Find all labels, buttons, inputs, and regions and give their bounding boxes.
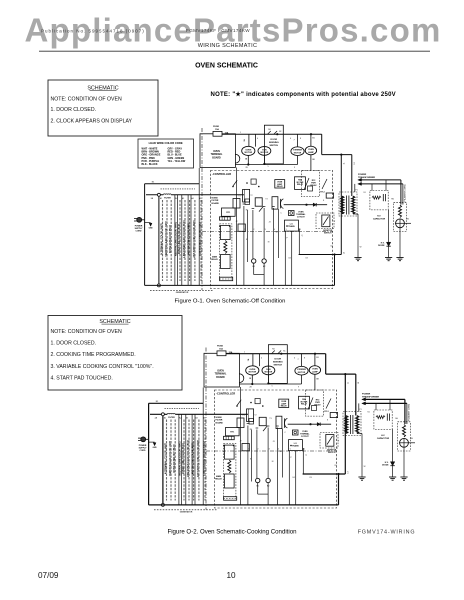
noise filter terminal verticals F2: [178, 414, 180, 505]
svg-text:RELAY: RELAY: [277, 185, 284, 188]
svg-text:STIRRER: STIRRER: [297, 369, 306, 371]
svg-text:BOARD: BOARD: [212, 156, 221, 159]
bus under motors F1: [235, 164, 297, 166]
svg-text:FUSE: FUSE: [217, 346, 223, 348]
svg-text:-CONTROLLER: -CONTROLLER: [212, 172, 231, 176]
svg-text:2. COOKING TIME PROGRAMMED.: 2. COOKING TIME PROGRAMMED.: [51, 352, 136, 358]
svg-text:FILTER: FILTER: [168, 417, 175, 419]
relay coil box K3 F1: [272, 197, 278, 209]
neutral vertical with junctions F2: [162, 414, 164, 505]
noise filter terminal verticals F1: [174, 195, 176, 286]
svg-text:FGMV174KF FGMV174KW: FGMV174KF FGMV174KW: [186, 28, 250, 33]
small component box F1: [245, 199, 250, 205]
svg-text:1: 1: [244, 229, 245, 231]
terminal strip F1: [220, 217, 231, 220]
oven motor M1 F1: [248, 134, 250, 146]
svg-text:ANT SW COM (COLOR: RED): ANT SW COM (COLOR: RED): [188, 223, 191, 255]
svg-text:CAPACITOR: CAPACITOR: [373, 217, 386, 220]
svg-text:FUSED LINE (COLOR: BLK): FUSED LINE (COLOR: BLK): [183, 443, 185, 473]
svg-text:WIRING SCHEMATIC: WIRING SCHEMATIC: [198, 43, 258, 49]
svg-text:B8: B8: [316, 379, 318, 381]
svg-text:4: 4: [257, 138, 258, 140]
fan motor M2 F1: [258, 147, 271, 156]
note box figure 1: [48, 80, 158, 136]
svg-text:B1: B1: [316, 357, 318, 359]
svg-text:A4: A4: [191, 197, 193, 200]
ground G3 F1: [396, 257, 403, 259]
svg-text:SWITCH: SWITCH: [273, 364, 282, 366]
svg-text:W: W: [360, 247, 362, 249]
main relay assembly F1: [220, 224, 232, 279]
relay K2 F2: [259, 417, 266, 425]
capacitor C1 F2: [284, 418, 286, 428]
oven lamp M4 F2: [314, 354, 316, 366]
svg-text:RELAY: RELAY: [301, 403, 308, 406]
terminal E1 F2: [256, 478, 260, 482]
controller drop wires F2: [240, 387, 242, 505]
switch contact S2 F1: [259, 206, 263, 211]
svg-text:4: 4: [278, 448, 279, 450]
transformer return wire F2: [303, 473, 346, 475]
low voltage transformer box F2: [289, 440, 303, 451]
svg-text:GENERATOR: GENERATOR: [176, 291, 189, 294]
svg-text:1. DOOR CLOSED.: 1. DOOR CLOSED.: [51, 107, 97, 113]
relay coil box K3 F2: [276, 416, 282, 428]
svg-text:J2: J2: [236, 221, 238, 223]
oven lamp M4 F1: [310, 134, 312, 146]
wire L1 rail F1: [145, 183, 200, 185]
door sensing switch box F1: [264, 125, 283, 164]
svg-text:FILAMENT (GRN): FILAMENT (GRN): [403, 184, 406, 201]
svg-text:MG: MG: [406, 219, 410, 221]
switch contact S3 F1: [322, 179, 327, 189]
controller dashed enclosure F1: [211, 171, 333, 289]
svg-text:T2: T2: [254, 415, 256, 417]
svg-text:T3: T3: [265, 199, 267, 201]
svg-text:OVEN SCHEMATIC: OVEN SCHEMATIC: [195, 63, 258, 70]
relay K1 F2: [247, 409, 254, 422]
magnetron dashed box F1: [394, 202, 407, 231]
svg-text:GND: GND: [149, 228, 154, 230]
wire N rail with line filter F2: [150, 413, 167, 415]
svg-text:LEAD WIRE COLOR CODE: LEAD WIRE COLOR CODE: [149, 141, 183, 145]
svg-text:B1: B1: [312, 138, 314, 140]
svg-text:RELAY: RELAY: [211, 258, 218, 261]
svg-text:Figure O-2. Oven Schematic-Coo: Figure O-2. Oven Schematic-Cooking Condi…: [167, 529, 296, 536]
svg-text:RELAY: RELAY: [215, 478, 222, 481]
stirrer motor M3 F2: [301, 354, 303, 367]
terminal board vertical F2: [202, 388, 204, 505]
terminal E2 F2: [266, 478, 270, 482]
secondary return to ground F2: [361, 434, 363, 478]
dashed interconnect F1: [161, 188, 196, 190]
choke coil filter F2: [167, 412, 175, 415]
svg-text:X3: X3: [309, 477, 311, 479]
wire label text texture F2: [166, 420, 168, 501]
power relay dashed box F1: [301, 171, 319, 197]
oven terminal board box F2: [204, 353, 239, 387]
wire stub marks F1: [243, 203, 246, 205]
neutral vertical with junctions F1: [158, 195, 160, 286]
svg-text:H.V.: H.V.: [377, 216, 381, 218]
svg-text:9: 9: [294, 167, 295, 169]
svg-text:A2: A2: [175, 197, 177, 200]
note box figure 2: [48, 316, 182, 391]
ground G2 F1: [385, 257, 392, 259]
power supply cord plug F2: [141, 437, 146, 442]
terminal board vertical F1: [198, 168, 200, 285]
svg-text:T1: T1: [238, 196, 240, 198]
svg-text:TRANS: TRANS: [288, 225, 295, 228]
svg-text:SENSING: SENSING: [273, 361, 283, 363]
capacitor C1 F1: [280, 199, 282, 209]
svg-text:POWER: POWER: [358, 174, 367, 176]
wire to monitor area F2: [288, 423, 331, 425]
svg-text:MAIN: MAIN: [212, 256, 218, 259]
svg-text:MOTOR: MOTOR: [244, 152, 252, 154]
svg-text:T2: T2: [250, 195, 252, 197]
secondary return to ground F1: [357, 214, 359, 258]
terminal E1 F1: [252, 259, 256, 263]
svg-text:CUTOUT: CUTOUT: [301, 436, 310, 438]
thermal cutout F2: [293, 430, 299, 435]
monitor switch dashed box F2: [320, 433, 338, 449]
svg-text:7: 7: [293, 140, 294, 142]
header rule: [39, 50, 430, 52]
svg-text:FUSE: FUSE: [213, 126, 219, 128]
svg-text:OVEN: OVEN: [312, 369, 318, 371]
stirrer motor M3 F1: [297, 134, 299, 147]
svg-text:R1: R1: [250, 429, 252, 431]
svg-text:R1: R1: [246, 210, 248, 212]
power supply cord plug F1: [137, 217, 142, 222]
HV diode D1 F2: [392, 429, 394, 461]
svg-text:OVEN: OVEN: [249, 369, 255, 371]
fan motor relay box F1: [295, 177, 306, 190]
svg-text:POWER: POWER: [362, 394, 371, 396]
door switch contacts F1: [268, 131, 271, 134]
svg-text:SWITCH: SWITCH: [269, 145, 278, 147]
svg-text:6: 6: [304, 448, 305, 450]
svg-text:SENSING: SENSING: [269, 142, 279, 144]
svg-text:DOOR: DOOR: [271, 139, 278, 141]
svg-text:H.V.: H.V.: [381, 435, 385, 437]
svg-text:J3: J3: [269, 222, 271, 224]
svg-text:A1: A1: [160, 197, 162, 200]
svg-text:8: 8: [300, 138, 301, 140]
svg-text:CORD: CORD: [140, 450, 146, 452]
svg-text:DOOR: DOOR: [275, 358, 282, 360]
bus corner to transformer feeds F2: [325, 354, 327, 374]
relay K1 F1: [243, 189, 250, 202]
svg-text:T1: T1: [242, 415, 244, 417]
bus corner to transformer feeds F1: [321, 134, 323, 154]
svg-text:OVEN: OVEN: [217, 371, 224, 373]
svg-text:X2: X2: [334, 465, 336, 467]
svg-text:07/09: 07/09: [38, 571, 59, 580]
svg-text:P1: P1: [355, 190, 357, 192]
controller board bottom dashed edge F1: [150, 289, 213, 291]
svg-text:8: 8: [304, 358, 305, 360]
svg-text:MAIN: MAIN: [216, 475, 222, 478]
svg-text:OVEN: OVEN: [308, 149, 314, 151]
svg-text:N TERMINAL (COLOR: WHT): N TERMINAL (COLOR: WHT): [165, 443, 168, 474]
wire N rail with line filter F1: [146, 194, 163, 196]
svg-text:GND: GND: [153, 447, 158, 449]
svg-text:STIRRER: STIRRER: [293, 150, 302, 152]
diode D2 F2: [317, 423, 320, 426]
aux component box B6 F1: [251, 179, 256, 184]
terminal link wire F2: [257, 483, 259, 494]
svg-text:FUSED LINE (COLOR: BLK): FUSED LINE (COLOR: BLK): [179, 224, 181, 254]
terminal link wire F1: [253, 263, 255, 274]
magnetron tube F1: [396, 219, 405, 228]
oven lamp relay box F1: [275, 180, 285, 188]
svg-text:FILTER: FILTER: [164, 198, 171, 200]
left supply rail F1: [144, 184, 146, 286]
svg-text:Publication No. 5995544718 (09: Publication No. 5995544718 (0907): [41, 29, 145, 34]
svg-text:SWITCH: SWITCH: [328, 452, 336, 454]
svg-text:-CONTROLLER: -CONTROLLER: [216, 392, 235, 396]
svg-text:ANT SW COM (COLOR: RED): ANT SW COM (COLOR: RED): [192, 442, 195, 474]
chassis dash-dot boundary vertical F2: [205, 348, 207, 510]
svg-text:A5: A5: [199, 197, 201, 200]
svg-text:LAMP: LAMP: [312, 370, 318, 373]
power relay dashed box F2: [305, 390, 323, 416]
bottom return rail F1: [145, 284, 335, 286]
svg-text:1. DOOR CLOSED.: 1. DOOR CLOSED.: [51, 341, 97, 347]
controller dashed enclosure F2: [215, 390, 337, 508]
chassis ground arrow at cord F2: [149, 441, 155, 443]
svg-text:CAPACITOR: CAPACITOR: [377, 437, 390, 440]
lead wire color code box: [138, 139, 194, 168]
svg-text:BOARD: BOARD: [212, 202, 220, 205]
dashed interconnect F2: [165, 407, 200, 409]
left supply rail F2: [148, 403, 150, 505]
magnetron tube F2: [400, 438, 409, 447]
svg-text:FGMV174-WIRING: FGMV174-WIRING: [358, 529, 416, 535]
svg-text:5: 5: [267, 166, 268, 168]
switch contact S4 F2: [237, 400, 241, 406]
svg-text:4: 4: [274, 229, 275, 231]
svg-text:6: 6: [300, 229, 301, 231]
svg-text:SWITCH: SWITCH: [324, 232, 332, 234]
svg-text:3: 3: [269, 448, 270, 450]
bottom return rail F2: [149, 504, 339, 506]
fan motor M2 F2: [262, 366, 275, 375]
svg-text:X3: X3: [305, 258, 307, 260]
svg-text:10: 10: [226, 571, 236, 580]
svg-text:DIODE: DIODE: [378, 245, 385, 247]
svg-text:A3: A3: [182, 197, 184, 200]
svg-text:7: 7: [297, 359, 298, 361]
svg-text:OVEN: OVEN: [213, 151, 220, 153]
svg-text:J3: J3: [273, 441, 275, 443]
svg-text:10: 10: [275, 232, 277, 234]
wire L1 rail F2: [149, 402, 204, 404]
svg-text:DIODE: DIODE: [382, 464, 389, 466]
svg-text:GENERATOR: GENERATOR: [180, 511, 193, 514]
transformer return wire F1: [299, 254, 342, 256]
wire to monitor area F1: [284, 204, 327, 206]
svg-text:NOTE: CONDITION OF OVEN: NOTE: CONDITION OF OVEN: [51, 329, 122, 335]
svg-text:T3: T3: [269, 418, 271, 420]
main relay assembly F2: [224, 443, 236, 498]
top supply bus F1: [222, 133, 322, 135]
svg-text:X4: X4: [288, 258, 290, 260]
svg-text:4. START PAD TOUCHED.: 4. START PAD TOUCHED.: [51, 375, 113, 381]
relay board box F1: [222, 208, 236, 216]
svg-text:RELAY: RELAY: [297, 183, 304, 186]
relay board box F2: [226, 428, 240, 436]
svg-text:1: 1: [248, 448, 249, 450]
chassis ground arrow at cord F1: [145, 222, 151, 224]
svg-text:5: 5: [286, 229, 287, 231]
ground G2 F2: [389, 476, 396, 478]
component box B5 F1: [238, 224, 245, 231]
component above monitor F1: [326, 193, 333, 198]
board dash-dot boundary horizontal F2: [206, 450, 337, 452]
svg-text:LAMP: LAMP: [308, 151, 314, 154]
filament winding loop F2: [366, 398, 405, 400]
svg-text:NOTE: CONDITION OF OVEN: NOTE: CONDITION OF OVEN: [51, 96, 122, 102]
HV capacitor dashed box F1: [370, 191, 388, 210]
svg-text:A3: A3: [186, 417, 188, 420]
oven motor M1 F2: [252, 354, 254, 366]
ground G1 F1: [354, 257, 361, 259]
switch contact S4 F1: [233, 180, 237, 186]
fan motor relay box F2: [299, 396, 310, 409]
svg-text:YEL - YELLOW: YEL - YELLOW: [168, 160, 186, 163]
svg-text:15A: 15A: [215, 128, 219, 131]
svg-text:A5: A5: [203, 417, 205, 420]
ground G1 F2: [358, 476, 365, 478]
svg-text:X2: X2: [330, 246, 332, 248]
oven lamp relay box F2: [279, 399, 289, 407]
bus under motors F2: [239, 383, 301, 385]
svg-text:4: 4: [261, 358, 262, 360]
svg-text:1: 1: [244, 352, 245, 354]
svg-text:OVEN: OVEN: [245, 149, 251, 151]
svg-text:MOTOR: MOTOR: [294, 152, 302, 154]
svg-text:BOARD: BOARD: [216, 376, 225, 379]
top supply bus F2: [226, 353, 326, 355]
HV capacitor dashed box F2: [374, 410, 392, 429]
choke coil filter F1: [163, 193, 171, 196]
svg-text:1: 1: [240, 132, 241, 134]
svg-text:N TERMINAL (COLOR: WHT): N TERMINAL (COLOR: WHT): [161, 223, 164, 254]
svg-text:6: 6: [294, 358, 295, 360]
wire label text texture F1: [162, 200, 164, 281]
controller board bottom dashed edge F2: [154, 509, 217, 511]
svg-text:RY-3: RY-3: [320, 192, 324, 194]
svg-text:6: 6: [290, 138, 291, 140]
door sensing switch box F2: [268, 345, 287, 384]
svg-text:NOTE: "★" indicates components: NOTE: "★" indicates components with pote…: [211, 91, 396, 98]
small component box F2: [249, 419, 254, 425]
terminal strip F2: [224, 436, 235, 439]
transformer primary feed wires F1: [340, 155, 342, 255]
svg-text:P1: P1: [359, 409, 361, 411]
controller drop wires F1: [236, 168, 238, 286]
aux relay box F2: [237, 418, 244, 428]
svg-text:B8: B8: [312, 159, 314, 161]
thermal cutout F1: [289, 211, 295, 216]
svg-text:RELAY: RELAY: [281, 405, 288, 408]
svg-text:5: 5: [290, 448, 291, 450]
svg-text:MG: MG: [410, 438, 414, 440]
fuse F1 15A F1: [213, 131, 222, 136]
svg-text:TERMINAL: TERMINAL: [211, 153, 223, 156]
svg-text:TERMINAL: TERMINAL: [215, 373, 227, 376]
filament winding loop F1: [362, 179, 401, 181]
aux relay box F1: [233, 199, 240, 209]
svg-text:TRANS: TRANS: [292, 445, 299, 448]
monitor switch dashed box F1: [316, 213, 334, 229]
component above monitor F2: [330, 413, 337, 418]
svg-text:RY-3: RY-3: [324, 411, 328, 413]
svg-text:A1: A1: [164, 417, 166, 420]
HV diode D1 F1: [388, 210, 390, 242]
svg-text:S1: S1: [363, 192, 365, 194]
diode D2 F1: [313, 203, 316, 206]
switch contact S3 F2: [326, 399, 331, 409]
svg-text:5: 5: [271, 386, 272, 388]
svg-text:S1: S1: [367, 411, 369, 413]
svg-text:BOARD: BOARD: [216, 421, 224, 424]
svg-text:Figure O-1. Oven Schematic-Off: Figure O-1. Oven Schematic-Off Condition: [175, 298, 286, 304]
svg-text:CUTOUT: CUTOUT: [297, 216, 306, 218]
svg-text:A2: A2: [179, 417, 181, 420]
svg-text:MOTOR: MOTOR: [248, 372, 256, 374]
board dash-dot boundary horizontal F1: [202, 231, 333, 233]
svg-text:MOTOR: MOTOR: [298, 372, 306, 374]
aux component box B6 F2: [255, 399, 260, 404]
svg-text:NEUTRAL LINE (COLOR: WHT): NEUTRAL LINE (COLOR: WHT): [174, 222, 177, 256]
svg-text:X4: X4: [292, 477, 294, 479]
door switch contacts F2: [272, 351, 275, 354]
oven terminal board box F1: [200, 134, 235, 168]
svg-text:BLK - BLACK: BLK - BLACK: [142, 163, 158, 166]
transformer primary feed wires F2: [344, 374, 346, 474]
svg-text:3. VARIABLE COOKING CONTROL "1: 3. VARIABLE COOKING CONTROL "100%".: [51, 364, 154, 370]
svg-text:15A: 15A: [219, 348, 223, 351]
switch contact S2 F2: [263, 426, 267, 431]
svg-text:3: 3: [265, 229, 266, 231]
fuse F1 15A F2: [217, 351, 226, 356]
svg-text:10: 10: [279, 451, 281, 453]
svg-text:CORD: CORD: [136, 231, 142, 233]
svg-text:9: 9: [298, 387, 299, 389]
ground G3 F2: [400, 476, 407, 478]
terminal E2 F1: [262, 259, 266, 263]
svg-text:2: 2: [257, 448, 258, 450]
svg-text:FILAMENT (GRN): FILAMENT (GRN): [407, 404, 410, 421]
wire stub marks F2: [247, 423, 250, 425]
low voltage transformer box F1: [285, 220, 299, 231]
svg-text:J2: J2: [240, 441, 242, 443]
svg-text:W: W: [364, 466, 366, 468]
relay K2 F1: [255, 198, 262, 206]
svg-text:2: 2: [253, 229, 254, 231]
magnetron dashed box F2: [398, 422, 411, 451]
chassis dash-dot boundary vertical F1: [201, 128, 203, 290]
svg-text:A4: A4: [195, 417, 197, 420]
svg-text:2. CLOCK APPEARS ON DISPLAY: 2. CLOCK APPEARS ON DISPLAY: [51, 118, 133, 124]
svg-text:NEUTRAL LINE (COLOR: WHT): NEUTRAL LINE (COLOR: WHT): [178, 441, 181, 475]
component box B5 F2: [242, 444, 249, 451]
